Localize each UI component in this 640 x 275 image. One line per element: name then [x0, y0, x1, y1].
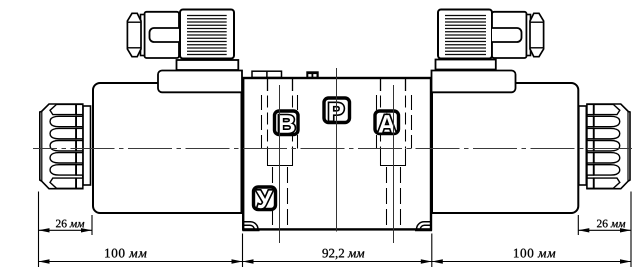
port B lower hidden hole — [273, 167, 288, 229]
connector block ribs right — [445, 16, 486, 55]
dimension line bottom row — [39, 261, 632, 263]
extension line solenoid-right — [577, 215, 579, 235]
cap rib rects — [76, 104, 83, 188]
collar ring left — [83, 106, 91, 185]
port B hidden lines — [262, 95, 298, 149]
dimension 92,2 mm — [243, 249, 432, 264]
armature tube cap right — [432, 71, 516, 93]
armature tube cap left — [158, 71, 242, 93]
extension line solenoid-left — [91, 215, 93, 235]
solid stubs below top edge — [268, 79, 406, 91]
port B counterbore cup — [267, 149, 293, 166]
connector block right — [438, 10, 492, 59]
cable gland body right — [492, 12, 527, 58]
cable gland body left — [145, 12, 180, 58]
solenoid coil right — [432, 83, 578, 213]
gland washer right — [527, 15, 531, 56]
port A lower hidden hole — [387, 167, 401, 229]
boss on valve body top — [252, 71, 282, 77]
vertical centerline — [336, 68, 338, 232]
knurled cap left — [40, 104, 83, 189]
cable gland slot left — [150, 28, 180, 42]
dimension 100 mm left — [39, 249, 243, 264]
horizontal centerline — [33, 148, 636, 150]
port badge B — [275, 111, 299, 135]
port badge A — [375, 111, 399, 134]
mounting foot right — [415, 222, 432, 230]
extension line cap-right — [630, 192, 632, 268]
dimension 26 mm left — [39, 220, 93, 233]
solenoid coil left — [93, 83, 242, 213]
port A axis — [393, 85, 395, 243]
connector block ribs left — [187, 16, 227, 55]
gland hex nut left — [127, 13, 141, 56]
dimension 100 mm right — [432, 249, 631, 264]
port badge P — [324, 98, 350, 123]
knurled cap right (mirror of left) — [587, 104, 630, 189]
gland washer left — [141, 15, 145, 56]
extension line cap-left — [38, 192, 40, 268]
dimension 26 mm right — [578, 220, 631, 233]
extension line body-left — [242, 234, 244, 268]
connector plinth left — [177, 60, 239, 70]
connector block left — [180, 10, 234, 59]
cable gland slot right — [492, 28, 522, 42]
drain badge У — [254, 187, 276, 210]
valve body — [243, 78, 431, 229]
extension line body-right — [431, 234, 433, 268]
port B axis — [279, 85, 281, 243]
mounting foot left — [243, 222, 260, 230]
connector plinth right — [436, 60, 496, 70]
vent screw block — [306, 71, 318, 77]
collar ring right — [579, 106, 587, 185]
port A hidden lines — [377, 95, 412, 149]
port A counterbore cup — [380, 149, 406, 166]
cap rib bullets — [50, 104, 76, 188]
cap rib bullets — [594, 104, 620, 188]
cap rib rects — [587, 104, 594, 188]
gland hex nut right — [530, 13, 544, 56]
